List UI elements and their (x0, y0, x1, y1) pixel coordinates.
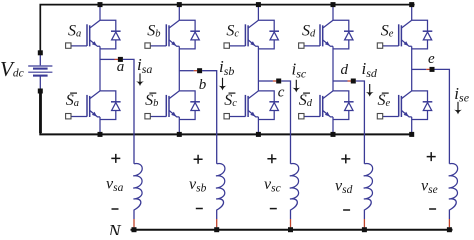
svg-text:e: e (428, 51, 435, 67)
svg-text:a: a (117, 59, 125, 75)
svg-text:d: d (341, 62, 349, 78)
svg-text:b: b (199, 77, 207, 93)
svg-text:c: c (278, 85, 285, 101)
svg-text:N: N (108, 221, 122, 235)
